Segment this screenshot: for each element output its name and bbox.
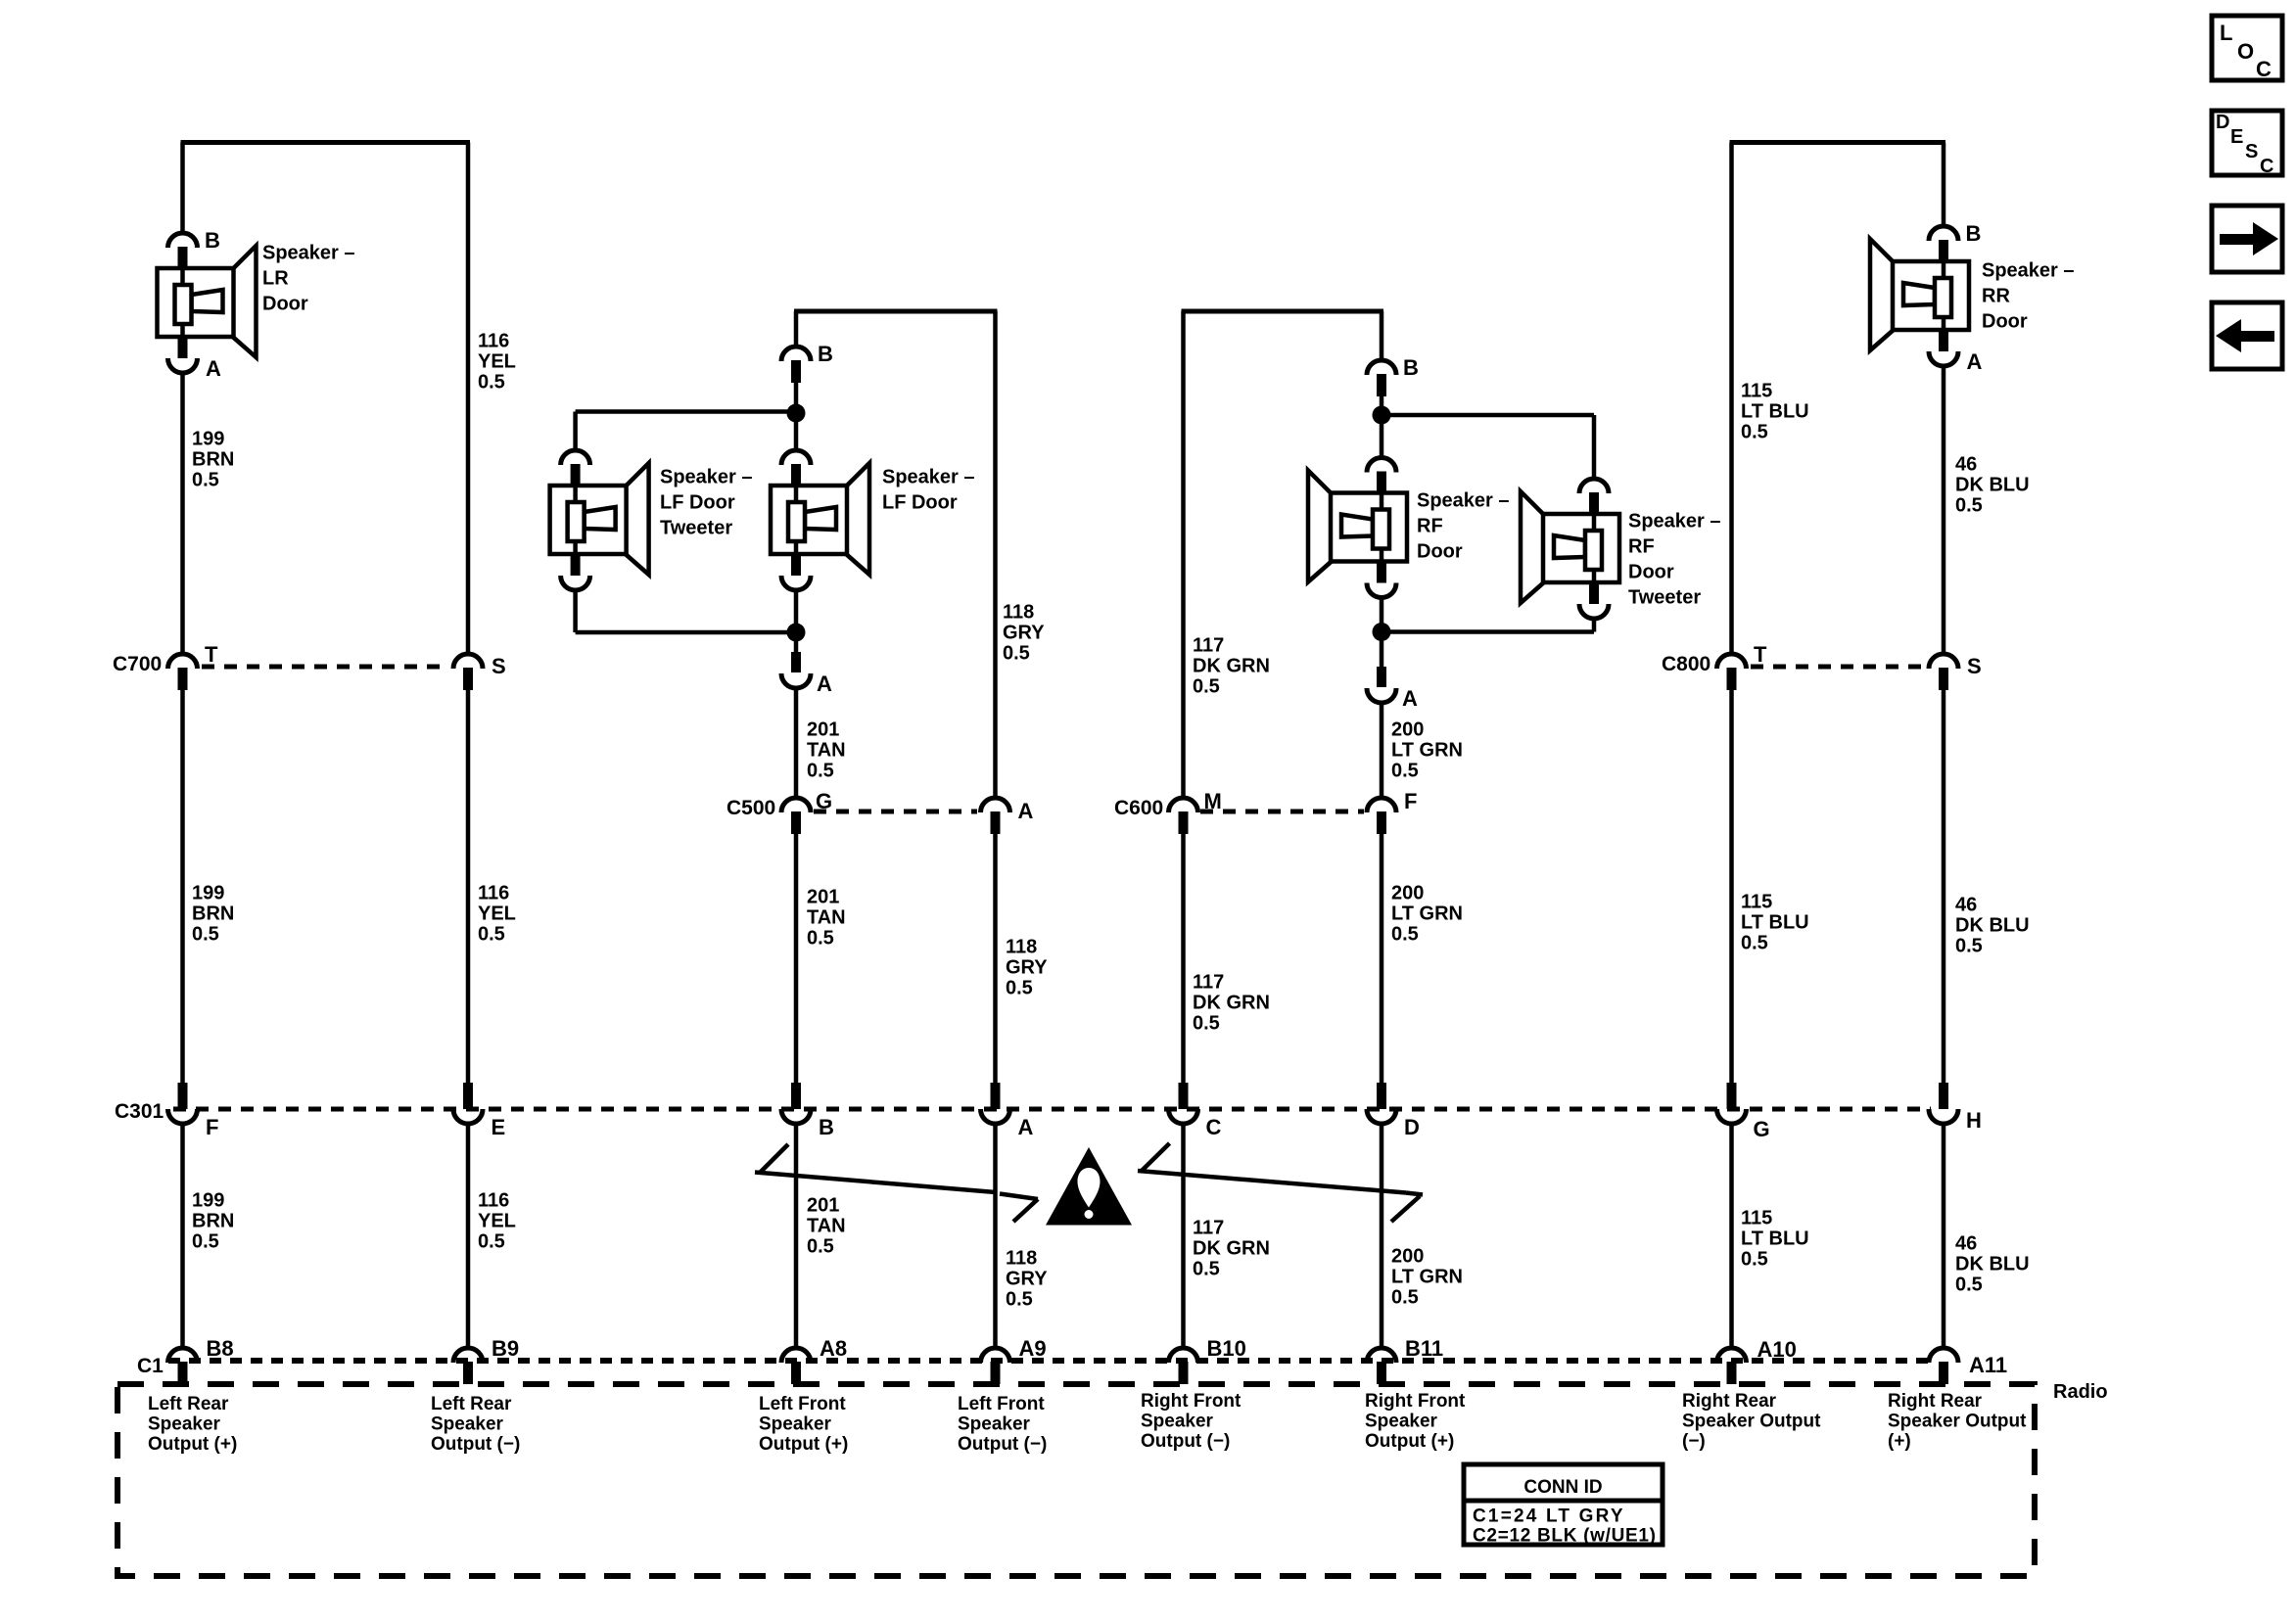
connector C301 pin B: [781, 1083, 811, 1124]
connector C600 pin F: [1367, 798, 1396, 834]
svg-text:115: 115: [1741, 892, 1772, 913]
note arrow (left, crossing LF wires): [755, 1144, 1038, 1222]
connector C500 pin A: [981, 798, 1010, 834]
svg-text:118: 118: [1006, 1248, 1037, 1270]
svg-text:Left Front: Left Front: [759, 1394, 846, 1414]
wire label 46 DK BLU 0.5 (lower): [1955, 1233, 2030, 1296]
radio terminal label: right front speaker output (+): [1365, 1391, 1466, 1452]
wire 46 DK BLU: top horizontal to speaker RR pin B: [1942, 143, 1946, 227]
svg-text:0.5: 0.5: [192, 1231, 219, 1253]
wire 199 BRN: top horizontal to speaker LR pin B: [180, 143, 185, 234]
svg-text:A8: A8: [820, 1336, 847, 1361]
svg-text:Radio: Radio: [2053, 1381, 2108, 1403]
svg-text:B: B: [205, 228, 220, 253]
svg-text:199: 199: [192, 1190, 224, 1212]
connector C301 pin H: [1929, 1083, 1958, 1124]
wire label 116 YEL 0.5 (middle): [478, 883, 516, 946]
svg-text:46: 46: [1955, 454, 1977, 476]
pin S label (C800): [1967, 654, 1982, 678]
connector C1 pin B11: [1367, 1348, 1396, 1384]
svg-text:Speaker: Speaker: [958, 1413, 1031, 1434]
wire 116 YEL: C301 pin E to C1 pin B9: [466, 1124, 471, 1348]
pin F label (C600): [1404, 789, 1417, 813]
connector C800 pin S: [1929, 654, 1958, 690]
pin B label (speaker RR): [1966, 221, 1982, 246]
svg-text:116: 116: [478, 1190, 509, 1212]
connector C301 pin G: [1717, 1083, 1747, 1124]
connector C1 pin A10: [1717, 1348, 1747, 1384]
svg-text:0.5: 0.5: [1193, 676, 1220, 698]
svg-text:Speaker –: Speaker –: [262, 243, 355, 264]
branch wire to RF tweeter (top): [1382, 415, 1594, 479]
svg-text:G: G: [816, 789, 832, 813]
svg-text:B9: B9: [492, 1336, 519, 1361]
svg-text:TAN: TAN: [807, 907, 846, 929]
svg-text:LT GRN: LT GRN: [1391, 740, 1463, 762]
pin B (LF door harness): [781, 347, 811, 383]
svg-text:Speaker –: Speaker –: [882, 467, 975, 488]
svg-text:C700: C700: [113, 653, 162, 675]
svg-text:Output (+): Output (+): [148, 1434, 237, 1455]
wire label 115 LT BLU 0.5 (lower): [1741, 1208, 1809, 1271]
svg-text:YEL: YEL: [478, 904, 516, 925]
wire label 199 BRN 0.5 (middle): [192, 883, 234, 946]
wire label 201 TAN 0.5 (upper): [807, 719, 846, 782]
pin A9 label: [1019, 1336, 1047, 1361]
connector C1 dashed line: [168, 1358, 1929, 1364]
svg-text:LT BLU: LT BLU: [1741, 912, 1809, 934]
svg-text:RF: RF: [1628, 536, 1655, 558]
wire 118 GRY: C301 pin A to C1 pin A9: [993, 1124, 998, 1348]
svg-text:B: B: [818, 342, 833, 366]
wire 116 YEL: C700 pin S to C301 pin E: [466, 689, 471, 1087]
svg-text:TAN: TAN: [807, 1216, 846, 1237]
svg-text:(+): (+): [1888, 1431, 1911, 1452]
connector C500 label: [726, 797, 775, 819]
radio terminal label: left front speaker output (+): [759, 1394, 848, 1455]
svg-text:Output (+): Output (+): [759, 1434, 848, 1455]
svg-text:DK GRN: DK GRN: [1193, 993, 1270, 1014]
pin M label: [1204, 789, 1222, 813]
connector C1 pin B8: [168, 1348, 198, 1384]
connector C1 pin A9: [981, 1348, 1010, 1384]
pin S label: [492, 654, 506, 678]
speaker RR Door: [1870, 226, 1969, 366]
svg-text:0.5: 0.5: [1391, 1287, 1419, 1309]
speaker RF Door: [1308, 458, 1407, 598]
svg-text:LF Door: LF Door: [882, 492, 958, 514]
connector C1 pin B10: [1169, 1348, 1198, 1384]
wire label 116 YEL 0.5 (upper): [478, 331, 516, 394]
svg-text:Door: Door: [1982, 311, 2028, 333]
svg-text:0.5: 0.5: [192, 470, 219, 491]
svg-text:A9: A9: [1019, 1336, 1047, 1361]
svg-text:LT BLU: LT BLU: [1741, 1228, 1809, 1250]
speaker LR Door: [158, 233, 257, 373]
svg-text:C1: C1: [137, 1355, 164, 1377]
svg-text:Right Front: Right Front: [1141, 1391, 1242, 1412]
connector C800 label: [1662, 653, 1710, 675]
wire 117 DK GRN: C600 pin M to C301 pin C: [1181, 833, 1186, 1087]
svg-text:C600: C600: [1114, 797, 1163, 819]
svg-text:0.5: 0.5: [1955, 1274, 1983, 1296]
svg-text:(−): (−): [1682, 1431, 1706, 1452]
wire 199 BRN: C700 pin T to C301 pin F: [180, 689, 185, 1087]
wire: pin B to junction (RF top): [1380, 396, 1384, 415]
svg-text:118: 118: [1003, 602, 1034, 624]
radio terminal label: right rear speaker output (+): [1888, 1391, 2027, 1452]
radio terminal label: right rear speaker output (-): [1682, 1391, 1821, 1452]
label: Speaker - LF Door Tweeter: [660, 467, 753, 539]
radio terminal label: right front speaker output (-): [1141, 1391, 1242, 1452]
speaker LF Door: [771, 450, 869, 590]
pin B10 label: [1207, 1336, 1246, 1361]
svg-text:200: 200: [1391, 1246, 1424, 1268]
pin T label: [205, 642, 218, 667]
svg-text:BRN: BRN: [192, 904, 234, 925]
radio dashed box: [117, 1384, 2035, 1576]
svg-text:115: 115: [1741, 381, 1772, 402]
svg-text:201: 201: [807, 719, 839, 741]
wire: junction to speaker RF Door: [1380, 415, 1384, 457]
radio terminal label: left rear speaker output (-): [431, 1394, 520, 1455]
connector C301 dashed line: [173, 1107, 1931, 1112]
svg-text:S: S: [2245, 141, 2258, 162]
connector C1 pin B9: [453, 1348, 483, 1384]
connector C301 label: [115, 1100, 164, 1123]
wire label 201 TAN 0.5 (lower): [807, 1195, 846, 1258]
speaker LF Door Tweeter: [550, 450, 649, 590]
connector C800 dashed joint T-S: [1751, 665, 1925, 670]
svg-text:Output (−): Output (−): [958, 1434, 1047, 1455]
connector C500 pin G: [781, 798, 811, 834]
wire 118 GRY: top horizontal to C500 pin A: [993, 311, 998, 798]
pin B (RF door harness): [1367, 360, 1396, 396]
branch wire from RF tweeter (bottom): [1382, 619, 1594, 632]
pin B label (LF): [818, 342, 833, 366]
wire 200 LT GRN: C301 pin D to C1 pin B11: [1380, 1124, 1384, 1348]
svg-text:B: B: [1966, 221, 1982, 246]
svg-text:200: 200: [1391, 883, 1424, 904]
svg-text:0.5: 0.5: [1741, 1249, 1768, 1271]
svg-text:E: E: [2230, 126, 2243, 148]
svg-text:A: A: [1018, 1115, 1034, 1139]
label: Speaker - RF Door: [1417, 490, 1510, 563]
svg-text:0.5: 0.5: [1391, 761, 1419, 782]
svg-text:D: D: [1404, 1115, 1420, 1139]
svg-text:RR: RR: [1982, 286, 2010, 307]
pin A (RF door harness): [1367, 667, 1396, 703]
svg-text:Door: Door: [1417, 541, 1463, 563]
wire label 117 DK GRN 0.5 (middle): [1193, 972, 1270, 1035]
svg-text:117: 117: [1193, 635, 1224, 657]
svg-text:B8: B8: [207, 1336, 234, 1361]
svg-text:DK GRN: DK GRN: [1193, 656, 1270, 677]
wire label 199 BRN 0.5 (lower): [192, 1190, 234, 1253]
svg-text:Right Front: Right Front: [1365, 1391, 1466, 1412]
svg-text:A: A: [1402, 686, 1418, 711]
wire 199 BRN: C301 pin F to C1 pin B8: [180, 1124, 185, 1348]
svg-text:LF Door: LF Door: [660, 492, 735, 514]
svg-text:0.5: 0.5: [478, 924, 505, 946]
connector C700 dashed joint T-S: [202, 665, 449, 670]
svg-text:E: E: [492, 1115, 506, 1139]
svg-text:117: 117: [1193, 972, 1224, 994]
pin A label (speaker RR): [1967, 349, 1983, 374]
svg-text:0.5: 0.5: [1193, 1259, 1220, 1280]
label: Speaker - LR Door: [262, 243, 355, 315]
wire 201 TAN: pin A to C500 pin G: [794, 688, 799, 798]
svg-text:GRY: GRY: [1006, 957, 1048, 979]
pin B label (speaker LR): [205, 228, 220, 253]
svg-text:Output (−): Output (−): [1141, 1431, 1230, 1452]
svg-text:Right Rear: Right Rear: [1888, 1391, 1983, 1412]
pin A (LF door harness): [781, 652, 811, 688]
svg-text:199: 199: [192, 883, 224, 904]
svg-text:0.5: 0.5: [478, 372, 505, 394]
junction node (RF bottom): [1373, 623, 1391, 641]
wire 46 DK BLU: C301 pin H to C1 pin A11: [1942, 1124, 1946, 1348]
pin A label (C500): [1018, 799, 1034, 823]
svg-text:Door: Door: [1628, 562, 1674, 583]
svg-text:46: 46: [1955, 1233, 1977, 1255]
svg-text:C: C: [2260, 156, 2273, 177]
svg-text:115: 115: [1741, 1208, 1772, 1229]
svg-text:Left Front: Left Front: [958, 1394, 1045, 1414]
svg-text:DK BLU: DK BLU: [1955, 915, 2030, 937]
warning symbol (caution triangle): [1046, 1147, 1132, 1226]
pin B label (C301): [819, 1115, 834, 1139]
wire 201 TAN: C301 pin B to C1 pin A8: [794, 1124, 799, 1348]
svg-text:Speaker: Speaker: [1141, 1411, 1214, 1431]
wire label 117 DK GRN 0.5 (upper): [1193, 635, 1270, 698]
pin B11 label: [1405, 1336, 1443, 1361]
connector C600 dashed joint M-F: [1200, 810, 1364, 814]
svg-text:M: M: [1204, 789, 1222, 813]
svg-text:0.5: 0.5: [1006, 978, 1033, 999]
svg-text:TAN: TAN: [807, 740, 846, 762]
wire label 199 BRN 0.5 (upper): [192, 429, 234, 491]
svg-text:B: B: [819, 1115, 834, 1139]
svg-text:Speaker: Speaker: [1365, 1411, 1438, 1431]
wire label 115 LT BLU 0.5 (upper): [1741, 381, 1809, 443]
svg-text:DK BLU: DK BLU: [1955, 1254, 2030, 1275]
wire: junction to pin A (RF): [1380, 632, 1384, 671]
svg-text:C301: C301: [115, 1100, 164, 1123]
wire label 117 DK GRN 0.5 (lower): [1193, 1218, 1270, 1280]
svg-text:201: 201: [807, 887, 839, 908]
label: Radio: [2053, 1381, 2108, 1403]
svg-text:F: F: [206, 1115, 218, 1139]
wire: junction to pin A (LF): [794, 632, 799, 654]
svg-text:B11: B11: [1405, 1336, 1443, 1361]
svg-text:C500: C500: [726, 797, 775, 819]
wire label 46 DK BLU 0.5 (upper): [1955, 454, 2030, 517]
svg-text:Left Rear: Left Rear: [148, 1394, 229, 1414]
connector C500 dashed joint G-A: [814, 810, 977, 814]
pin A label (speaker LR): [206, 356, 221, 381]
wire: left rear loop top horizontal: [181, 140, 471, 145]
connector C600 label: [1114, 797, 1163, 819]
svg-text:A: A: [1018, 799, 1034, 823]
svg-text:0.5: 0.5: [1955, 936, 1983, 957]
svg-text:Left Rear: Left Rear: [431, 1394, 512, 1414]
svg-text:A: A: [1967, 349, 1983, 374]
svg-text:L: L: [2220, 21, 2232, 45]
connector C1 pin A11: [1929, 1348, 1958, 1384]
pin A10 label: [1757, 1337, 1797, 1362]
wire 199 BRN: speaker LR pin A to C700 pin T: [180, 373, 185, 654]
pin B label (RF): [1403, 355, 1419, 380]
wire label 46 DK BLU 0.5 (middle): [1955, 895, 2030, 957]
svg-text:RF: RF: [1417, 516, 1443, 537]
svg-text:O: O: [2237, 39, 2254, 64]
svg-text:0.5: 0.5: [1741, 422, 1768, 443]
svg-text:C2=12 BLK (w/UE1): C2=12 BLK (w/UE1): [1473, 1526, 1657, 1547]
svg-text:Output (+): Output (+): [1365, 1431, 1454, 1452]
svg-text:C1=24 LT GRY: C1=24 LT GRY: [1473, 1506, 1625, 1527]
svg-text:LT GRN: LT GRN: [1391, 1267, 1463, 1288]
svg-text:0.5: 0.5: [192, 924, 219, 946]
pin B8 label: [207, 1336, 234, 1361]
pin D label (C301): [1404, 1115, 1420, 1139]
pin A label (RF): [1402, 686, 1418, 711]
connector C700 pin S: [453, 654, 483, 690]
wire label 116 YEL 0.5 (lower): [478, 1190, 516, 1253]
forward arrow nav box: [2212, 206, 2282, 272]
svg-text:S: S: [492, 654, 506, 678]
svg-text:0.5: 0.5: [1955, 495, 1983, 517]
connector C301 pin F: [168, 1083, 198, 1124]
pin B9 label: [492, 1336, 519, 1361]
pin A label (C301): [1018, 1115, 1034, 1139]
radio terminal label: left rear speaker output (+): [148, 1394, 237, 1455]
wire 117 DK GRN: top horizontal to C600 pin M: [1181, 311, 1186, 798]
DESC nav box: [2212, 111, 2282, 177]
wire 117 DK GRN: C301 pin C to C1 pin B10: [1181, 1124, 1186, 1348]
svg-text:B10: B10: [1207, 1336, 1246, 1361]
speaker RF Door Tweeter: [1521, 479, 1619, 619]
junction node (LF bottom): [787, 624, 806, 642]
svg-text:YEL: YEL: [478, 351, 516, 373]
pin C label (C301): [1206, 1115, 1222, 1139]
connector C301 pin A: [981, 1083, 1010, 1124]
wire: junction to speaker LF Door: [794, 413, 799, 450]
wire 200 LT GRN: C600 pin F to C301 pin D: [1380, 833, 1384, 1087]
connector C1 pin A8: [781, 1348, 811, 1384]
wire 118 GRY: C500 pin A to C301 pin A: [993, 833, 998, 1087]
CONN ID table: [1464, 1464, 1663, 1547]
connector C800 pin T: [1717, 654, 1747, 690]
pin A8 label: [820, 1336, 847, 1361]
wire label 200 LT GRN 0.5 (middle): [1391, 883, 1463, 946]
svg-text:G: G: [1754, 1117, 1770, 1141]
connector C301 pin D: [1367, 1083, 1396, 1124]
svg-text:C800: C800: [1662, 653, 1710, 675]
wire 200 LT GRN: pin A to C600 pin F: [1380, 703, 1384, 798]
wire label 201 TAN 0.5 (middle): [807, 887, 846, 950]
svg-text:T: T: [1754, 642, 1767, 667]
svg-text:DK BLU: DK BLU: [1955, 475, 2030, 496]
svg-text:C: C: [2256, 57, 2272, 81]
connector C700 label: [113, 653, 162, 675]
svg-text:200: 200: [1391, 719, 1424, 741]
pin G label (C301): [1754, 1117, 1770, 1141]
svg-text:201: 201: [807, 1195, 839, 1217]
pin A11 label: [1969, 1353, 2007, 1377]
LOC nav box: [2212, 16, 2282, 81]
svg-text:BRN: BRN: [192, 449, 234, 471]
svg-text:0.5: 0.5: [1391, 924, 1419, 946]
label: Speaker - RR Door: [1982, 260, 2075, 333]
svg-text:Right Rear: Right Rear: [1682, 1391, 1777, 1412]
junction node (RF top): [1373, 406, 1391, 425]
wire 115 LT BLU: top horizontal to C800 pin T: [1729, 143, 1734, 655]
svg-text:D: D: [2216, 112, 2229, 133]
svg-text:Tweeter: Tweeter: [660, 518, 732, 539]
svg-text:0.5: 0.5: [478, 1231, 505, 1253]
svg-text:117: 117: [1193, 1218, 1224, 1239]
wire 46 DK BLU: C800 pin S to C301 pin H: [1942, 689, 1946, 1087]
radio terminal label: left front speaker output (-): [958, 1394, 1047, 1455]
svg-text:0.5: 0.5: [1741, 933, 1768, 954]
svg-text:S: S: [1967, 654, 1982, 678]
svg-text:C: C: [1206, 1115, 1222, 1139]
svg-text:116: 116: [478, 883, 509, 904]
svg-text:0.5: 0.5: [1006, 1289, 1033, 1311]
wire label 115 LT BLU 0.5 (middle): [1741, 892, 1809, 954]
svg-text:BRN: BRN: [192, 1211, 234, 1232]
wire label 118 GRY 0.5 (lower): [1006, 1248, 1048, 1311]
svg-text:F: F: [1404, 789, 1417, 813]
wire label 200 LT GRN 0.5 (lower): [1391, 1246, 1463, 1309]
svg-text:A: A: [206, 356, 221, 381]
svg-text:199: 199: [192, 429, 224, 450]
wire 46 DK BLU: speaker RR pin A to C800 pin S: [1942, 366, 1946, 654]
svg-text:YEL: YEL: [478, 1211, 516, 1232]
junction node (LF top): [787, 404, 806, 423]
pin F label: [206, 1115, 218, 1139]
svg-text:Door: Door: [262, 294, 308, 315]
wire: pin B to junction: [794, 383, 799, 413]
svg-text:A: A: [817, 672, 832, 696]
svg-text:0.5: 0.5: [807, 928, 834, 950]
wire: speaker RF Door to junction (RF bottom): [1380, 597, 1384, 632]
pin A label (LF): [817, 672, 832, 696]
pin E label: [492, 1115, 506, 1139]
svg-text:116: 116: [478, 331, 509, 352]
svg-text:46: 46: [1955, 895, 1977, 916]
wire 201 TAN: C500 pin G to C301 pin B: [794, 833, 799, 1087]
wire 201 TAN: top horizontal to pin B: [794, 311, 799, 347]
svg-text:Speaker: Speaker: [148, 1413, 221, 1434]
svg-text:LR: LR: [262, 268, 289, 290]
wire: speaker LF Door to junction (bottom): [794, 590, 799, 632]
note arrow (right, crossing RF wires): [1138, 1143, 1423, 1222]
connector C1 label: [137, 1355, 164, 1377]
pin G label: [816, 789, 832, 813]
svg-text:Speaker: Speaker: [431, 1413, 504, 1434]
wire 115 LT BLU: C301 pin G to C1 pin A10: [1729, 1124, 1734, 1348]
branch wire to tweeter (top): [576, 412, 796, 451]
label: Speaker - RF Door Tweeter: [1628, 511, 1721, 609]
wire 115 LT BLU: C800 pin T to C301 pin G: [1729, 689, 1734, 1087]
back arrow nav box: [2212, 302, 2282, 369]
pin T label (C800): [1754, 642, 1767, 667]
connector C700 pin T: [168, 654, 198, 690]
connector C301 pin E: [453, 1083, 483, 1124]
branch wire from tweeter (bottom): [576, 590, 796, 632]
